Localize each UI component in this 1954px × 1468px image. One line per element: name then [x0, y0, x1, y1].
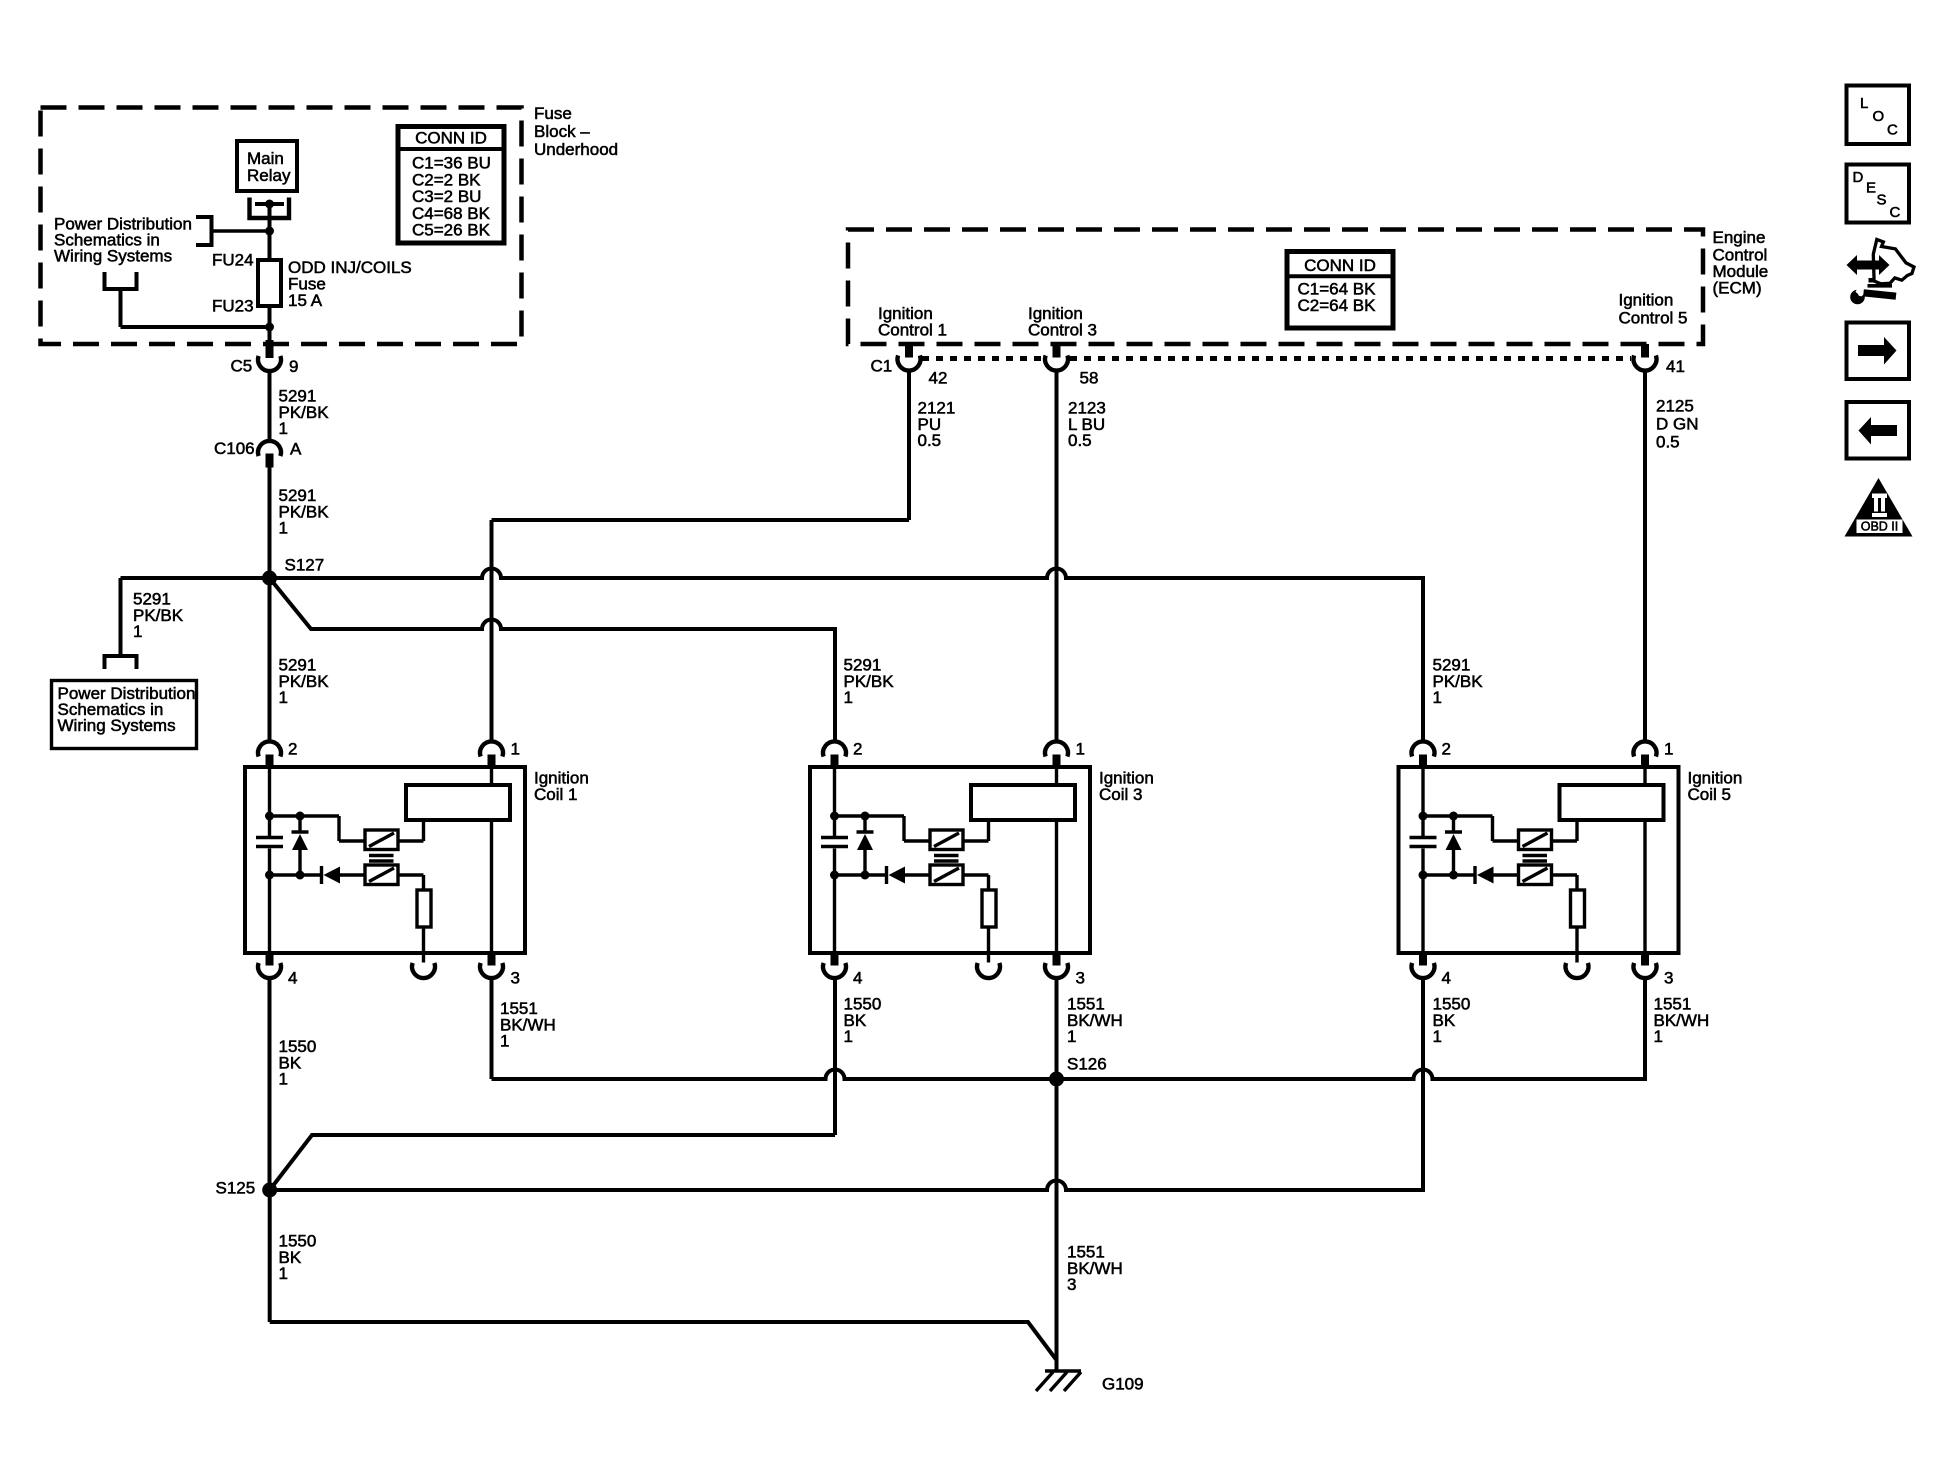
wire coil 5 pin 2 to pin 4 internal — [1421, 849, 1424, 954]
resistor coil 5 — [1571, 890, 1585, 927]
connector coil 3 pin 1 terminal — [1045, 741, 1068, 756]
svg-text:C5: C5 — [231, 357, 253, 376]
svg-text:CONN ID: CONN ID — [415, 129, 487, 148]
icon electrical diagnosis (arrow over outline with wrench) — [1847, 239, 1915, 304]
connector C1 pin 42 stub — [905, 344, 913, 358]
connector coil 3 pin 3 stub — [1053, 953, 1061, 966]
ignition coil 5 outline box — [1399, 767, 1679, 953]
diode coil 1 — [270, 866, 366, 884]
wire coil 5 node to driver 1 — [1423, 816, 1519, 841]
svg-text:1: 1 — [279, 519, 288, 538]
wire resistor to spare terminal coil 1 — [422, 927, 425, 963]
wire 1550 coil 1 pin 4 to splice S125 — [268, 978, 272, 1190]
wire coil 1 pin 1 through winding — [490, 767, 493, 953]
driver stage 1 (slash box) coil 1 — [365, 830, 398, 850]
svg-text:S125: S125 — [216, 1179, 256, 1198]
wire 1550 coil 3 pin 4 down — [833, 978, 837, 1135]
connector C5 terminal — [258, 356, 281, 371]
wire coil 1 pin 2 internal — [268, 767, 271, 836]
connector coil 1 pin 2 terminal — [258, 741, 281, 756]
svg-text:15 A: 15 A — [288, 291, 323, 310]
capacitor coil 3 — [821, 838, 848, 847]
wire driver 2 to resistor coil 1 — [398, 875, 424, 890]
svg-text:0.5: 0.5 — [918, 431, 942, 450]
connector coil 3 spare terminal — [977, 963, 1000, 978]
connector coil 3 pin 2 terminal — [823, 741, 846, 756]
wire 5291 C106 to splice S127 — [268, 467, 272, 578]
svg-text:1: 1 — [844, 1027, 853, 1046]
wire 2123 ECM pin 58 to coil 3 pin 1 — [1055, 370, 1059, 742]
CONN ID table (ECM) — [1287, 252, 1393, 329]
svg-text:2: 2 — [1442, 740, 1451, 759]
svg-text:1: 1 — [279, 419, 288, 438]
wire coil 1 node to driver 1 — [270, 816, 366, 841]
svg-text:Control 5: Control 5 — [1619, 309, 1688, 328]
svg-text:E: E — [1866, 180, 1876, 197]
svg-text:Ignition: Ignition — [1619, 291, 1674, 310]
zener diode coil 1 — [292, 816, 309, 875]
wire driver 1 to coil 5 winding — [1552, 820, 1578, 841]
relay socket terminal cup — [250, 198, 290, 219]
svg-text:A: A — [290, 440, 302, 459]
icon OBD II triangle — [1845, 478, 1913, 537]
svg-text:C1: C1 — [871, 357, 893, 376]
ECM internal dotted bus line — [922, 356, 1631, 361]
svg-text:Control 3: Control 3 — [1028, 320, 1097, 339]
junction FU23 node — [265, 323, 274, 332]
node coil 3 zener bottom — [861, 871, 870, 880]
resistor coil 3 — [982, 890, 996, 927]
svg-text:Wiring Systems: Wiring Systems — [54, 247, 172, 266]
connector coil 1 spare terminal — [412, 963, 435, 978]
wire resistor to spare terminal coil 3 — [987, 927, 990, 963]
svg-text:C: C — [1887, 122, 1898, 139]
wire 5291 C5 to C106 — [268, 371, 272, 442]
connector C1 pin 41 terminal — [1634, 355, 1657, 370]
icon DESC box — [1847, 165, 1910, 223]
connector coil 1 pin 2 stub — [266, 755, 274, 768]
svg-text:Coil 1: Coil 1 — [534, 785, 577, 804]
wire coil 5 pin 2 internal — [1421, 767, 1424, 836]
svg-text:Engine: Engine — [1713, 228, 1766, 247]
node coil 5 cap bottom — [1419, 871, 1428, 880]
svg-text:2: 2 — [288, 740, 297, 759]
svg-text:1: 1 — [279, 1264, 288, 1283]
svg-text:(ECM): (ECM) — [1713, 279, 1762, 298]
node coil 5 zener bottom — [1449, 871, 1458, 880]
svg-text:Coil 3: Coil 3 — [1099, 785, 1142, 804]
svg-text:Fuse: Fuse — [534, 104, 572, 123]
wire resistor to spare terminal coil 5 — [1575, 927, 1578, 963]
splice S125 — [262, 1183, 277, 1198]
relay terminal bar — [255, 202, 284, 206]
node coil 3 cap top — [830, 812, 839, 821]
svg-text:CONN ID: CONN ID — [1304, 256, 1376, 275]
driver stage 1 (slash box) coil 5 — [1519, 830, 1552, 850]
icon forward arrow box — [1847, 323, 1910, 380]
node coil 1 cap bottom — [265, 871, 274, 880]
wire coil 5 pin 1 through winding — [1643, 767, 1646, 953]
off-page bracket above lower Power Distribution box — [105, 656, 137, 669]
svg-text:Underhood: Underhood — [534, 140, 618, 159]
driver stage 1 (slash box) coil 3 — [930, 830, 963, 850]
wire 1551 bus to splice S126 and coil 5 pin 3 (with hops) — [492, 978, 1646, 1079]
driver stage 2 (slash box) coil 1 — [365, 865, 398, 885]
svg-text:C106: C106 — [214, 439, 255, 458]
node coil 1 zener top — [296, 812, 305, 821]
node coil 1 zener bottom — [296, 871, 305, 880]
connector coil 1 pin 3 stub — [488, 953, 496, 966]
svg-text:C2=64 BK: C2=64 BK — [1298, 296, 1377, 315]
engine control module ECM dashed enclosure — [848, 230, 1703, 345]
wire S127 to ignition coil 5 pin 2 (with hops) — [270, 569, 1424, 742]
svg-text:0.5: 0.5 — [1656, 433, 1680, 452]
svg-text:3: 3 — [1067, 1275, 1076, 1294]
connector coil 1 pin 1 terminal — [480, 741, 503, 756]
relay K Main Relay box — [237, 141, 297, 191]
svg-text:S: S — [1877, 192, 1887, 209]
coupling bars coil 5 — [1523, 856, 1548, 862]
svg-text:1: 1 — [1433, 688, 1442, 707]
node coil 1 cap top — [265, 812, 274, 821]
svg-text:3: 3 — [1664, 969, 1673, 988]
svg-text:Block –: Block – — [534, 122, 590, 141]
wire fuse to connector C5 — [268, 306, 272, 344]
wire 2121 ECM pin 42 to coil 1 pin 1 — [492, 370, 910, 742]
wire driver 1 to coil 1 winding — [398, 820, 424, 841]
svg-text:1: 1 — [279, 688, 288, 707]
node coil 3 zener top — [861, 812, 870, 821]
wire 1550 S125 to ground G109 — [270, 1190, 1057, 1360]
splice S127 — [262, 571, 277, 586]
svg-text:1: 1 — [279, 1070, 288, 1089]
node coil 5 cap top — [1419, 812, 1428, 821]
svg-text:1: 1 — [500, 1032, 509, 1051]
wire coil 3 node to driver 1 — [835, 816, 931, 841]
coil 5 winding block — [1560, 785, 1664, 820]
wire S127 diagonal to ignition coil 3 pin 2 (with hop) — [270, 578, 836, 742]
connector coil 3 pin 3 terminal — [1045, 963, 1068, 978]
connector coil 3 pin 2 stub — [831, 755, 839, 768]
wire down to off-page bracket — [119, 578, 123, 654]
svg-text:2125: 2125 — [1656, 397, 1694, 416]
zener diode coil 5 — [1445, 816, 1462, 875]
connector coil 5 pin 4 stub — [1419, 953, 1427, 966]
svg-text:D GN: D GN — [1656, 415, 1699, 434]
wire coil 3 pin 4 branch to splice S125 — [270, 1135, 835, 1190]
capacitor coil 1 — [256, 838, 283, 847]
fuse block underhood dashed enclosure — [41, 108, 522, 345]
resistor coil 1 — [417, 890, 431, 927]
svg-text:58: 58 — [1080, 369, 1099, 388]
wire power distribution branch to FU23 node — [121, 289, 270, 327]
connector coil 5 pin 4 terminal — [1412, 963, 1435, 978]
svg-text:1: 1 — [1433, 1027, 1442, 1046]
junction at relay terminal — [265, 200, 274, 209]
svg-text:1: 1 — [1664, 740, 1673, 759]
connector coil 5 pin 2 terminal — [1412, 741, 1435, 756]
svg-text:G109: G109 — [1102, 1375, 1144, 1394]
wire power distribution tee — [213, 229, 270, 232]
connector C5 pin 9 stub — [266, 340, 274, 358]
svg-text:4: 4 — [853, 969, 862, 988]
connector C1 pin 41 stub — [1641, 344, 1649, 358]
connector coil 1 pin 3 terminal — [480, 963, 503, 978]
connector C106 pin A stub — [266, 454, 274, 468]
svg-text:1: 1 — [133, 622, 142, 641]
svg-text:Coil 5: Coil 5 — [1688, 785, 1731, 804]
connector coil 5 spare terminal — [1566, 963, 1589, 978]
icon LOC box — [1847, 86, 1910, 145]
svg-text:1: 1 — [1076, 740, 1085, 759]
off-page bracket (cup) below upper Power Distribution text — [105, 272, 137, 289]
svg-text:D: D — [1853, 169, 1864, 186]
CONN ID table (fuse block) — [398, 127, 504, 244]
wire S125 to coil 5 pin 4 (with hop) — [270, 978, 1423, 1190]
svg-text:FU23: FU23 — [212, 297, 254, 316]
coil 1 winding block — [406, 785, 510, 820]
svg-text:1: 1 — [1654, 1027, 1663, 1046]
wire coil 3 pin 2 to pin 4 internal — [833, 849, 836, 954]
svg-text:3: 3 — [1076, 969, 1085, 988]
connector coil 5 pin 1 stub — [1641, 755, 1649, 768]
svg-text:4: 4 — [288, 969, 297, 988]
wire S127 to power distribution reference — [121, 576, 270, 580]
wire coil 3 pin 2 internal — [833, 767, 836, 836]
zener diode coil 3 — [857, 816, 874, 875]
splice S126 — [1049, 1072, 1064, 1087]
junction to power distribution reference — [265, 227, 274, 236]
connector coil 5 pin 3 stub — [1641, 953, 1649, 966]
wire 1551 coil 1 pin 3 down — [490, 978, 494, 1079]
connector coil 1 pin 4 stub — [266, 953, 274, 966]
svg-text:OBD II: OBD II — [1861, 520, 1899, 534]
coupling bars coil 3 — [934, 856, 959, 862]
wire driver 2 to resistor coil 3 — [963, 875, 989, 890]
Power Distribution reference box (lower) — [52, 681, 197, 749]
svg-text:3: 3 — [511, 969, 520, 988]
coil 3 winding block — [971, 785, 1075, 820]
svg-text:FU24: FU24 — [212, 251, 254, 270]
icon back arrow box — [1847, 402, 1910, 459]
wire driver 1 to coil 3 winding — [963, 820, 989, 841]
svg-text:4: 4 — [1442, 969, 1451, 988]
svg-text:0.5: 0.5 — [1068, 431, 1092, 450]
svg-text:1: 1 — [511, 740, 520, 759]
connector coil 5 pin 2 stub — [1419, 755, 1427, 768]
diode coil 5 — [1423, 866, 1519, 884]
svg-text:Wiring Systems: Wiring Systems — [58, 716, 176, 735]
svg-text:S127: S127 — [285, 556, 325, 575]
connector coil 3 pin 4 terminal — [823, 963, 846, 978]
wire 1551 coil 3 pin 3 / S126 to ground G109 — [1055, 978, 1059, 1371]
driver stage 2 (slash box) coil 3 — [930, 865, 963, 885]
connector C1 pin 58 stub — [1053, 344, 1061, 358]
connector coil 1 pin 4 terminal — [258, 963, 281, 978]
ignition coil 1 outline box — [245, 767, 525, 953]
connector C106 terminal — [258, 441, 281, 456]
svg-text:41: 41 — [1666, 357, 1685, 376]
connector C1 pin 58 terminal — [1045, 355, 1068, 370]
wire 2125 ECM pin 41 to coil 5 pin 1 — [1643, 370, 1647, 742]
connector C1 pin 42 terminal — [898, 355, 921, 370]
coupling bars coil 1 — [369, 856, 394, 862]
wire relay terminal to fuse FU24 — [268, 204, 272, 260]
svg-text:42: 42 — [929, 369, 948, 388]
svg-text:C5=26 BK: C5=26 BK — [412, 221, 491, 240]
wire coil 1 pin 2 to pin 4 internal — [268, 849, 271, 954]
diode coil 3 — [835, 866, 931, 884]
svg-text:1: 1 — [1067, 1027, 1076, 1046]
svg-text:O: O — [1873, 108, 1885, 125]
connector coil 5 pin 1 terminal — [1634, 741, 1657, 756]
off-page bracket to Power Distribution (upper) — [196, 217, 212, 245]
node coil 3 cap bottom — [830, 871, 839, 880]
svg-text:S126: S126 — [1067, 1055, 1107, 1074]
wire coil 3 pin 1 through winding — [1055, 767, 1058, 953]
svg-text:9: 9 — [289, 357, 298, 376]
connector coil 3 pin 1 stub — [1053, 755, 1061, 768]
svg-text:L: L — [1860, 95, 1868, 112]
svg-text:Relay: Relay — [247, 166, 291, 185]
connector coil 1 pin 1 stub — [488, 755, 496, 768]
svg-text:Control 1: Control 1 — [878, 320, 947, 339]
ignition coil 3 outline box — [810, 767, 1090, 953]
capacitor coil 5 — [1410, 838, 1437, 847]
wire S127 down to ignition coil 1 pin 2 — [268, 578, 272, 742]
connector coil 5 pin 3 terminal — [1634, 963, 1657, 978]
svg-text:C: C — [1890, 204, 1901, 221]
wire driver 2 to resistor coil 5 — [1552, 875, 1578, 890]
fuse FU24/FU23 ODD INJ/COILS 15 A — [258, 260, 281, 306]
connector coil 3 pin 4 stub — [831, 953, 839, 966]
node coil 5 zener top — [1449, 812, 1458, 821]
ground G109 symbol — [1036, 1371, 1081, 1391]
svg-text:2: 2 — [853, 740, 862, 759]
driver stage 2 (slash box) coil 5 — [1519, 865, 1552, 885]
svg-text:1: 1 — [844, 688, 853, 707]
